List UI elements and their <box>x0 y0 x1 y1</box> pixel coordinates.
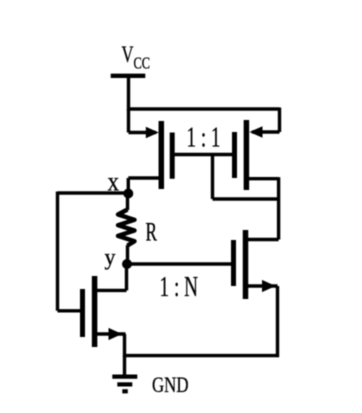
wire M4 drain lead <box>246 238 279 241</box>
wire bottom ground rail <box>125 354 280 357</box>
transistor M4 right NMOS gate bar <box>231 240 236 286</box>
wire M2 drain lead <box>246 177 278 180</box>
svg-text:x: x <box>108 166 120 196</box>
svg-text:1 : 1: 1 : 1 <box>187 123 221 154</box>
wire M1 source drop <box>127 109 130 133</box>
wire M1 drain drop to node x <box>127 178 130 194</box>
resistor R upper lead <box>126 194 129 211</box>
svg-text:R: R <box>146 218 158 247</box>
svg-text:1 : N: 1 : N <box>160 272 199 303</box>
wire M3 source drop to ground rail <box>123 334 126 357</box>
wire top VCC rail <box>127 107 280 110</box>
wire diode-connect branch vertical <box>211 155 214 200</box>
svg-text:V: V <box>122 42 134 67</box>
wire M3 drain lead <box>97 289 127 292</box>
wire M2 source lead <box>252 130 280 133</box>
transistor M3 left NMOS gate bar <box>80 289 85 337</box>
node x junction dot <box>123 189 133 199</box>
wire M3 source lead <box>97 332 126 335</box>
wire left rail to M3 gate <box>58 309 81 312</box>
arrow M4 source (points right away from channel) <box>262 280 276 292</box>
wire left rail vertical <box>56 192 59 311</box>
resistor R zigzag body <box>118 210 135 246</box>
arrow M3 source (points right away from channel) <box>109 328 123 340</box>
wire M1 source lead <box>129 131 157 134</box>
wire M1 drain lead <box>128 176 161 179</box>
wire VCC stem <box>127 76 130 111</box>
ground bar 3 <box>122 389 128 393</box>
wire node y to M4 gate <box>127 262 231 265</box>
resistor R lower lead <box>126 245 129 264</box>
ground bar 2 <box>117 382 132 386</box>
transistor M2 right PMOS gate bar <box>232 132 237 178</box>
svg-text:GND: GND <box>152 372 189 397</box>
wire M4 source lead <box>246 284 278 287</box>
wire right drain bus vertical <box>277 177 280 239</box>
ground bar 1 <box>112 375 137 379</box>
ground stem <box>123 356 126 376</box>
wire diode-connect branch horizontal <box>213 197 279 200</box>
wire node y drop to M3 drain <box>125 264 128 290</box>
transistor M1 left PMOS gate bar <box>170 133 175 179</box>
svg-text:CC: CC <box>134 53 151 72</box>
svg-text:y: y <box>105 245 116 270</box>
arrow M2 source (points left into channel) <box>250 126 263 138</box>
wire PMOS shared gate <box>172 153 234 156</box>
arrow M1 source (points right into channel) <box>146 127 159 139</box>
transistor M2 right PMOS channel bar <box>244 120 250 190</box>
node y junction dot <box>122 259 132 269</box>
transistor M4 right NMOS channel bar <box>243 230 249 299</box>
wire node x to left rail <box>58 191 129 194</box>
wire right PMOS source drop <box>278 108 281 133</box>
wire M4 source drop <box>276 286 279 357</box>
label VCC <box>122 42 151 72</box>
transistor M1 left PMOS channel bar <box>159 121 165 189</box>
transistor M3 left NMOS channel bar <box>92 276 98 347</box>
power symbol VCC bar <box>111 74 146 78</box>
